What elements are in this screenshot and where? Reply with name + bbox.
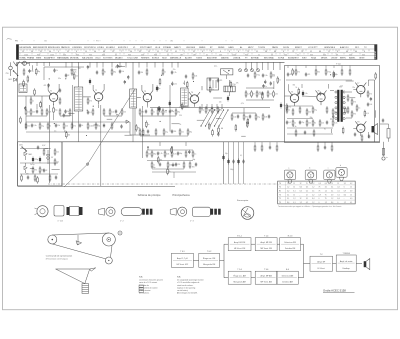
wire link [197,119,204,121]
svg-text:6,8k: 6,8k [194,76,197,78]
svg-text:van de batterij.: van de batterij. [177,289,189,292]
svg-text:GRENOBLE: GRENOBLE [324,47,336,49]
wire: S2 feed [132,62,134,89]
svg-text:MINSK: MINSK [321,58,328,60]
FM aerial input socket [9,66,13,70]
svg-text:BEROMUNSTR: BEROMUNSTR [33,47,48,49]
svg-text:75: 75 [319,191,321,193]
wire link [45,148,51,150]
svg-text:82: 82 [253,94,255,96]
svg-text:15k: 15k [164,112,167,114]
elco CE8 [227,159,229,165]
wire: AGC line [44,66,84,68]
transistor T2 [93,90,104,105]
block T-2 [310,254,333,271]
boxed references in note 1 [139,285,143,292]
tone potentiometer P2 [171,146,173,150]
svg-text:Eindtrap: Eindtrap [343,267,350,270]
resistor R47 [155,128,157,136]
transistor T4 [189,92,200,107]
capacitor C11 [145,109,147,113]
svg-text:220: 220 [65,126,68,128]
svg-text:1,2: 1,2 [312,187,314,189]
fuse cartridge pictorial [67,207,83,216]
svg-text:(Présentation schématique): (Présentation schématique) [46,257,68,260]
svg-text:LWOW: LWOW [331,58,337,60]
svg-text:390: 390 [34,170,37,172]
resistor R103 [23,80,25,88]
svg-text:25μ: 25μ [165,132,168,134]
svg-text:52: 52 [157,51,159,53]
wire: T1 collector to supply [58,84,60,90]
svg-text:3,3n: 3,3n [173,154,176,156]
capacitor C42 [324,145,326,149]
capacitor C31 [232,159,234,163]
wire: output bias drops [318,142,332,146]
svg-text:100: 100 [123,112,126,114]
elco CE9 [237,159,239,165]
svg-text:82: 82 [46,170,48,172]
wire: schematic bottom line [18,185,175,187]
svg-text:T4: T4 [191,92,193,94]
svg-text:68p: 68p [310,117,313,119]
svg-text:T 3-6: T 3-6 [264,269,268,271]
capacitor C105 [53,68,58,72]
wire: emitter returns [53,104,55,106]
resistor R183 [247,118,249,126]
capacitor C23 [31,123,37,127]
svg-text:T1: T1 [279,198,281,200]
wire stub [273,81,275,89]
resistor R4 [30,108,35,116]
svg-text:68p: 68p [177,112,180,114]
svg-text:33k: 33k [68,134,71,136]
wire: decoupling drops [229,142,244,184]
capacitor C24 [147,129,149,133]
drive drum [102,233,115,246]
svg-text:7: 7 [184,51,185,53]
wire: mixer out [246,87,274,89]
svg-text:1n: 1n [153,112,155,114]
svg-text:68p: 68p [335,74,338,76]
svg-text:Étage osc. AM: Étage osc. AM [233,275,246,278]
svg-text:15k: 15k [58,125,61,127]
svg-text:stand van de volume-: stand van de volume- [177,284,194,287]
capacitor C145 [171,82,177,86]
svg-text:ATHINAI: ATHINAI [251,57,259,60]
svg-text:470: 470 [288,107,291,109]
switch contact S1a [14,71,18,75]
junction [65,78,66,79]
capacitor C3 [36,109,38,113]
svg-text:0,2: 0,2 [337,187,339,189]
svg-text:6: 6 [229,51,230,53]
capacitor C17 [261,91,263,95]
wire link [107,118,113,120]
elco CE4 [227,96,229,102]
svg-text:0,1: 0,1 [54,131,56,133]
svg-text:3,3n: 3,3n [58,78,61,80]
svg-text:1,5k: 1,5k [275,94,278,96]
svg-text:0,1: 0,1 [90,112,92,114]
svg-text:BASEL: BASEL [349,57,356,60]
svg-text:390: 390 [245,117,248,119]
capacitor C112 [117,64,123,68]
svg-text:100: 100 [32,112,35,114]
svg-text:75: 75 [331,183,333,185]
svg-text:1,5k: 1,5k [111,112,114,114]
capacitor C16 [209,77,211,81]
capacitor C4 [59,88,61,92]
svg-text:96: 96 [31,51,33,53]
resistor R35 [231,113,236,121]
svg-text:12: 12 [112,51,114,53]
resistor R63 [183,161,185,169]
capacitor C192 [370,97,372,101]
junction [64,130,65,131]
svg-text:varier de ± 10 % suivant: varier de ± 10 % suivant [139,281,158,284]
svg-text:1,5k: 1,5k [160,153,163,155]
resistor R54b [49,174,51,182]
input coil L1 [19,84,27,93]
resistor R3 [25,108,30,116]
power box labels [19,145,46,167]
wire: switch to IF bus [232,112,256,114]
supply section box [18,142,62,186]
svg-text:DROITWICH: DROITWICH [84,47,96,49]
capacitor C39 [354,132,356,136]
capacitor C34b [326,120,328,124]
resistor R56 [151,150,156,158]
resistor R53b [43,148,45,156]
svg-text:T5: T5 [279,194,281,196]
svg-text:0,1: 0,1 [240,155,242,157]
svg-text:1k: 1k [82,125,84,127]
svg-text:4,7k: 4,7k [247,94,250,96]
dial scale left end cap [16,45,19,60]
svg-text:PO: PO [96,41,99,43]
svg-text:T-2: T-2 [320,254,323,256]
svg-text:12: 12 [293,183,295,185]
svg-text:FM: FM [15,41,18,43]
resistor R25 [162,68,166,76]
svg-text:1k: 1k [56,70,58,72]
dial scale station names row 1 [20,46,368,49]
svg-text:3,1: 3,1 [287,198,289,200]
block T 1-4 [255,236,277,251]
capacitor C33 [286,120,291,124]
svg-text:41: 41 [206,54,208,56]
svg-text:82: 82 [68,75,70,77]
capacitor C119 [124,80,126,84]
resistor R48 [163,128,168,136]
capacitor C36 [305,72,310,76]
lower pulley [105,257,112,264]
wire link [68,113,74,115]
svg-text:270p: 270p [327,72,331,74]
svg-text:AJACCIO: AJACCIO [340,46,349,49]
svg-text:STUTTGART: STUTTGART [140,46,153,49]
mains switch S5 [22,147,26,151]
svg-text:WARSZAWA: WARSZAWA [57,57,69,60]
wire link [216,117,222,119]
svg-text:2,2k: 2,2k [272,76,275,78]
resistor R211 [375,72,377,80]
svg-text:BUKAREST: BUKAREST [288,57,300,60]
svg-text:68p: 68p [180,153,183,155]
capacitor C110 [47,83,49,87]
junction [161,75,162,76]
block T 6-2 [199,251,220,267]
svg-text:1k: 1k [183,83,185,85]
wire: S2 secondary drop [132,108,134,142]
capacitor C30b [195,162,197,166]
svg-text:5n: 5n [92,126,94,128]
resistor R86 [276,144,278,152]
resistor R77 [351,98,356,106]
svg-text:potentiomètre de volume: potentiomètre de volume [139,286,158,289]
resistor R155 [135,124,140,132]
svg-text:b: b [309,168,310,170]
capacitor C26 [43,168,48,172]
wire link [349,97,355,99]
svg-text:10k: 10k [122,71,125,73]
svg-text:10k: 10k [183,106,186,108]
svg-text:1k: 1k [169,171,171,173]
svg-text:PARIS IN: PARIS IN [61,46,70,49]
capacitor C17b [247,73,249,77]
svg-text:8,4: 8,4 [312,198,314,200]
pilot lamp holder [54,206,64,217]
resistor R62 [167,161,172,169]
band legend above dial [15,40,232,42]
capacitor C20 [103,123,105,127]
svg-text:de la batterie.: de la batterie. [139,292,150,295]
svg-text:60: 60 [355,51,357,53]
dial scale right end cap label Cadran [374,45,377,60]
svg-text:68p: 68p [37,71,40,73]
resistor R70 [332,108,337,116]
svg-text:10k: 10k [269,94,272,96]
svg-text:68p: 68p [137,128,140,130]
resistor R184 [208,122,210,130]
resistor R175 [230,81,236,89]
resistor R53 [54,148,59,156]
svg-text:68p: 68p [189,132,192,134]
svg-text:3,1: 3,1 [344,183,346,185]
svg-text:12k: 12k [75,76,78,78]
svg-text:47k: 47k [236,83,239,85]
svg-text:T 1-4: T 1-4 [264,236,268,238]
resistor R52 [39,166,44,174]
svg-text:NIMES: NIMES [199,47,206,49]
svg-text:41: 41 [115,54,117,56]
svg-text:1k: 1k [180,124,182,126]
wire link [172,123,180,125]
capacitor C36b [333,72,335,76]
svg-text:T 6-1: T 6-1 [180,251,184,253]
capacitor C122 [24,106,26,110]
resistor R23 [175,108,180,116]
svg-text:270p: 270p [256,75,260,77]
svg-text:MOSKVA: MOSKVA [70,57,79,60]
padder capacitor C15 [217,78,222,82]
thermistor R80 [367,90,372,98]
resistor R76 [325,68,331,76]
capacitor C27 [157,151,163,155]
resistor R58 [171,150,176,158]
svg-text:68p: 68p [113,72,116,74]
svg-text:RENNES: RENNES [141,58,150,60]
svg-text:Ondia ACEC 5158: Ondia ACEC 5158 [323,289,346,293]
svg-text:a: a [288,168,289,170]
svg-text:21: 21 [167,54,169,56]
resistor R73e [313,129,315,137]
svg-text:470: 470 [26,174,29,176]
transistor socket X2 [305,168,316,183]
wire stub [375,110,377,117]
svg-text:220: 220 [179,115,182,117]
wire: TR1 leads [330,90,334,92]
svg-text:T5: T5 [291,91,293,93]
capacitor C26b [27,175,29,179]
svg-text:0,2: 0,2 [312,194,314,196]
junction [160,121,161,122]
resistor R9 [59,108,61,116]
svg-text:15k: 15k [308,112,311,114]
svg-text:1,2: 1,2 [287,187,289,189]
svg-text:0: 0 [337,202,338,204]
resistor R26b [192,72,197,80]
svg-text:2,2k: 2,2k [283,105,286,107]
resistor R6 [46,108,51,116]
svg-text:68p: 68p [219,110,222,112]
resistor R37 [255,113,260,121]
resistor R21 [157,108,162,116]
resistor R11 [71,68,76,76]
svg-text:300: 300 [323,54,326,56]
resistor R179 [235,124,237,132]
svg-text:68p: 68p [193,159,196,161]
resistor R57 [164,150,169,158]
capacitor C21 [79,123,84,127]
resistor R74 [295,68,300,76]
svg-text:3,3n: 3,3n [265,75,268,77]
resistor R83 [361,134,363,142]
wire stub [287,84,289,91]
resistor R68 [312,106,317,114]
svg-text:75: 75 [301,51,303,53]
resistor R173 [209,86,214,94]
elco CE5 [32,157,38,163]
tuning shaft [118,231,122,235]
resistor R33b [254,71,260,79]
svg-text:Ferroceptor: Ferroceptor [237,199,249,202]
svg-text:8: 8 [337,51,338,53]
svg-text:Mengstufe FM: Mengstufe FM [203,263,216,266]
junction [86,135,87,136]
wire: supply bus (top) [18,61,285,63]
svg-text:82: 82 [324,128,326,130]
capacitor C150 [157,106,159,110]
driver transformer TR1 windings [335,91,345,120]
dial scale frame [17,45,378,60]
svg-text:6,8k: 6,8k [264,117,267,119]
capacitor C8 [115,109,117,113]
switch bank contacts [202,104,223,109]
diode D4 [24,166,27,170]
svg-text:500: 500 [63,54,66,56]
svg-text:75: 75 [292,51,294,53]
svg-text:560: 560 [148,154,151,156]
elco CE7 [222,155,224,161]
capacitor C19b [268,114,270,118]
svg-text:T2: T2 [279,187,281,189]
wire: chassis line (dash-dot) [48,183,278,185]
volume potentiometer P1 [147,146,149,150]
svg-text:1n: 1n [279,80,281,82]
dial cord run [64,89,135,187]
svg-text:3,3n: 3,3n [334,123,337,125]
svg-text:187: 187 [180,54,183,56]
pointer triangle [56,269,90,284]
svg-text:0,9: 0,9 [331,194,333,196]
capacitor C123 [63,113,65,117]
svg-text:TOULOUSE: TOULOUSE [127,58,139,60]
svg-text:900: 900 [245,54,248,56]
svg-text:0,1: 0,1 [289,122,291,124]
wire: box top feeds [286,66,352,81]
detector diode D2 [126,120,129,123]
svg-text:Tensions mesurées par rapport: Tensions mesurées par rapport au châssis… [278,205,341,208]
svg-text:1100: 1100 [24,54,28,56]
resistor R221 [171,146,173,154]
svg-text:3,3n: 3,3n [305,93,308,95]
tuning gang CV1 [221,69,233,75]
svg-text:Ampl. de sortie: Ampl. de sortie [340,260,353,263]
resistor R1 [23,68,25,76]
svg-text:390: 390 [192,166,195,168]
resistor R16 [121,108,126,116]
svg-text:8,4: 8,4 [287,202,289,204]
resistor R34b [270,71,275,79]
svg-text:LONDRES: LONDRES [72,47,82,49]
resistor R101 [35,68,40,76]
svg-text:MADRID: MADRID [221,57,229,60]
decoupling labels [225,153,242,171]
svg-text:390: 390 [353,114,356,116]
svg-text:1,5k: 1,5k [174,83,177,85]
wire: lower rows in box [287,127,333,129]
svg-text:12: 12 [300,183,302,185]
dial scale station names row 2 [20,57,366,60]
battery B2 [387,129,390,139]
svg-text:GENT: GENT [359,58,365,60]
svg-text:Ampl. BF: Ampl. BF [317,261,326,264]
svg-text:52: 52 [67,51,69,53]
svg-text:1k: 1k [294,123,296,125]
svg-text:1100: 1100 [50,54,54,56]
transistor T3 [142,91,153,106]
svg-text:200: 200 [141,54,144,56]
wire: feeder drop into supply box [49,142,51,183]
svg-text:470: 470 [369,94,372,96]
svg-text:270p: 270p [35,159,39,161]
svg-text:300: 300 [102,54,105,56]
resistor R34 [273,90,278,98]
svg-text:3,1: 3,1 [293,191,295,193]
junction [330,74,331,75]
